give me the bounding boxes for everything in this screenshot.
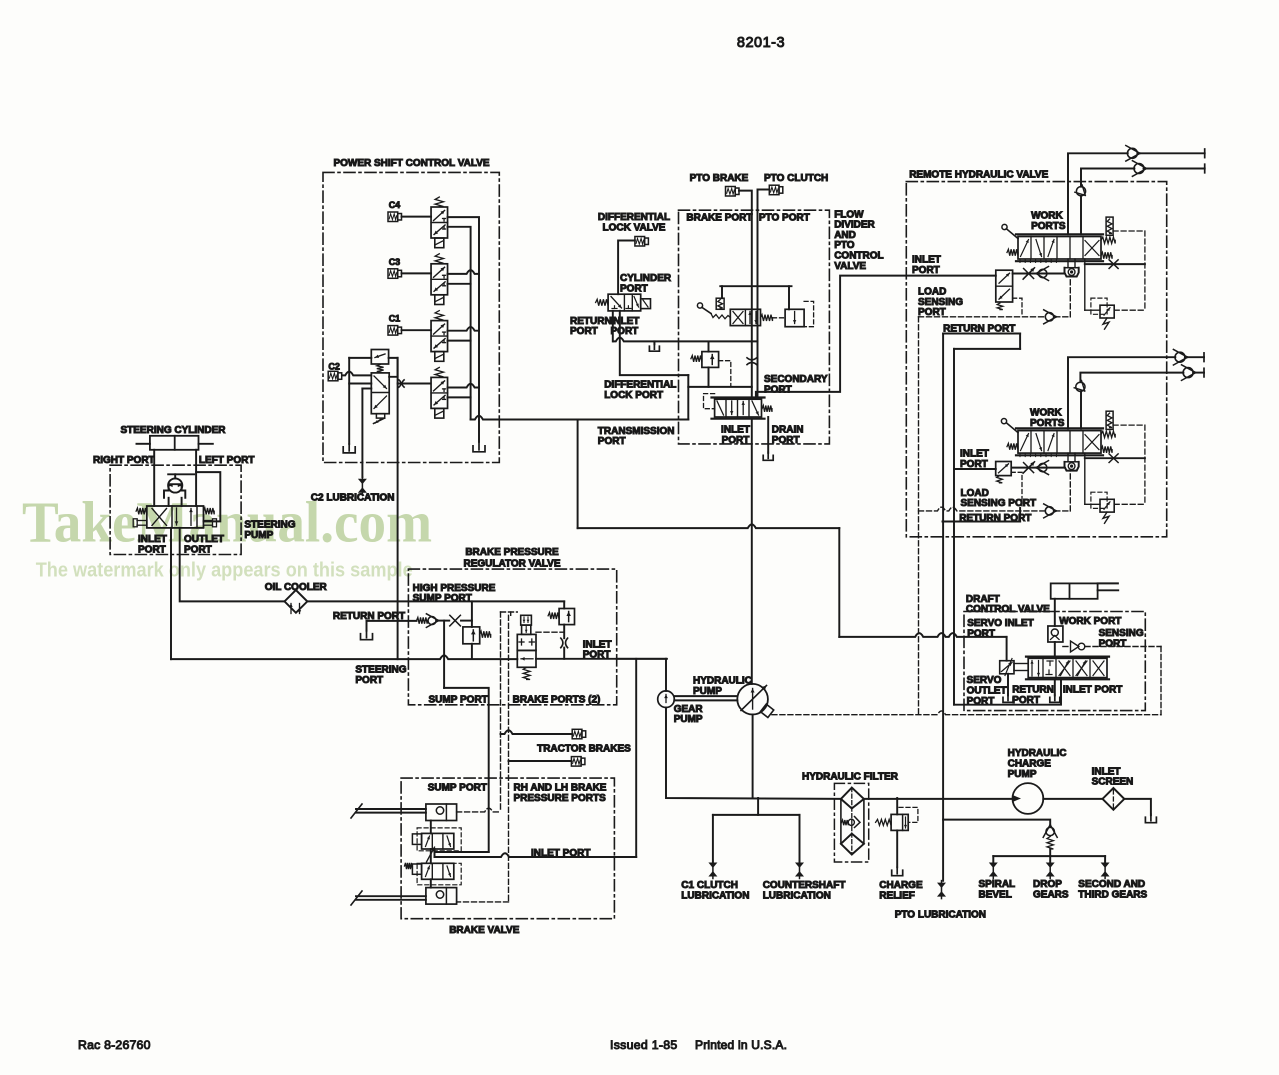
svg-text:VALVE: VALVE (834, 261, 866, 272)
svg-text:PORT: PORT (611, 326, 639, 337)
svg-text:PORT: PORT (772, 435, 800, 446)
pump drive shaft (674, 695, 737, 697)
svg-text:HIGH PRESSURE: HIGH PRESSURE (413, 583, 496, 594)
brake valve enclosure (401, 778, 614, 919)
remote valve pilot box (1106, 411, 1113, 429)
pto valve inlet line down to pump (751, 419, 753, 684)
svg-text:INLET: INLET (912, 254, 941, 265)
brake valve spool 2 (422, 863, 454, 879)
diff lock inlet from transmission (620, 311, 689, 375)
pto control valve (712, 396, 765, 398)
dashed brake line to cylinder 2 (457, 901, 509, 903)
svg-text:C3: C3 (389, 257, 401, 267)
svg-text:INLET: INLET (1092, 766, 1121, 777)
C2 pilot loop (349, 357, 371, 359)
svg-text:SERVO INLET: SERVO INLET (967, 618, 1033, 629)
inlet port line down (170, 528, 172, 659)
servo actuator (1000, 661, 1014, 674)
gear pump suction from sump line (665, 659, 667, 691)
svg-text:SECOND AND: SECOND AND (1078, 879, 1145, 890)
brake pressure regulator enclosure (408, 569, 616, 705)
svg-text:LUBRICATION: LUBRICATION (681, 890, 749, 901)
valve C3 (435, 254, 443, 263)
remote valve needle and check (1013, 273, 1065, 275)
svg-text:STEERING: STEERING (355, 665, 406, 676)
svg-text:PORT: PORT (598, 436, 626, 447)
svg-text:OUTLET: OUTLET (967, 686, 1007, 697)
wire valve4 upper to collector (448, 384, 479, 388)
sump into valves (435, 851, 489, 853)
wire C1 lower (448, 340, 471, 342)
remote valve relief pilot dashed box (1091, 492, 1107, 508)
svg-text:RIGHT PORT: RIGHT PORT (93, 455, 155, 466)
valve C2 tail (376, 414, 384, 418)
svg-text:PORT: PORT (1099, 638, 1127, 649)
svg-text:RELIEF: RELIEF (879, 890, 915, 901)
svg-text:INLET: INLET (721, 425, 750, 436)
pto lubrication line (937, 883, 946, 889)
svg-text:C1: C1 (389, 314, 401, 324)
svg-text:The watermark only appears on: The watermark only appears on this sampl… (36, 559, 413, 582)
svg-text:WORK PORT: WORK PORT (1059, 616, 1121, 627)
steering valve right loop (196, 472, 220, 521)
svg-text:Printed in U.S.A.: Printed in U.S.A. (695, 1038, 787, 1052)
svg-text:GEAR: GEAR (674, 704, 704, 715)
regulator spool stack (521, 615, 532, 625)
pump control dashed line (772, 711, 1161, 715)
wire C4 to valve (402, 216, 432, 218)
C2 port symbol (328, 371, 338, 381)
tank under right collector (473, 446, 485, 452)
charge line to gear lube (943, 820, 1050, 827)
wire valve4 lower (448, 396, 471, 398)
remote valve left spring (1007, 249, 1018, 255)
countershaft lubrication restrictor (795, 863, 804, 869)
C1 clutch lubrication restrictor (708, 863, 717, 869)
flow divider pilot valve (785, 309, 804, 326)
svg-text:LOAD: LOAD (961, 488, 989, 499)
flow divider pilot box small (716, 298, 724, 309)
svg-text:STEERING CYLINDER: STEERING CYLINDER (120, 425, 226, 436)
main low pressure line (666, 708, 841, 799)
svg-text:HYDRAULIC: HYDRAULIC (693, 675, 752, 686)
svg-text:CHARGE: CHARGE (1008, 759, 1052, 770)
brake port dashed lines (510, 612, 512, 615)
svg-text:OUTLET: OUTLET (184, 534, 224, 545)
C2 sump line down to steering port line (397, 358, 399, 659)
svg-text:PUMP: PUMP (674, 714, 703, 725)
svg-text:HYDRAULIC FILTER: HYDRAULIC FILTER (802, 771, 899, 782)
remote valve spool body (1016, 427, 1103, 429)
svg-text:BEVEL: BEVEL (979, 890, 1012, 901)
svg-text:SUMP PORT: SUMP PORT (428, 783, 487, 794)
remote valve compensator (1065, 462, 1079, 471)
power shift control valve enclosure (323, 172, 499, 462)
dashed brake line to cylinder 1 (457, 808, 501, 812)
remote valve 2 work lines (1068, 357, 1175, 429)
valve C2 pilot box (371, 350, 388, 365)
wire C1 upper to collector (448, 327, 479, 331)
inlet line of regulator (536, 658, 667, 660)
diff lock return line (612, 311, 614, 342)
flow divider enclosure (679, 210, 830, 444)
collector wire C4 lower (448, 227, 471, 420)
svg-text:PORT: PORT (918, 307, 946, 318)
remote valve inlet reducer (996, 270, 1013, 302)
second and third gears restrictor (1101, 863, 1110, 869)
remote valve 2 return line (943, 521, 1021, 523)
steering valve enclosure (110, 465, 241, 554)
relief valve right (563, 601, 565, 608)
remote valve inlet reducer (996, 462, 1012, 476)
svg-text:PORT: PORT (620, 283, 648, 294)
svg-text:WORK: WORK (1030, 408, 1062, 419)
svg-text:SUMP PORT: SUMP PORT (413, 593, 472, 604)
svg-text:C4: C4 (389, 200, 401, 210)
remote valve 1 return lines (943, 333, 1020, 335)
svg-text:HYDRAULIC: HYDRAULIC (1008, 748, 1067, 759)
wire C3 to valve (402, 272, 432, 274)
svg-text:INLET: INLET (583, 639, 612, 650)
work port line from cylinder (1054, 599, 1056, 626)
flow divider lever (697, 303, 702, 308)
servo outlet return loop (954, 679, 1061, 704)
brake cylinder 1 (426, 804, 457, 821)
svg-text:C2: C2 (328, 362, 340, 372)
charge relief valve (891, 814, 908, 830)
svg-text:SENSING PORT: SENSING PORT (961, 498, 1037, 509)
outlet port line to oil cooler (180, 528, 285, 602)
svg-text:PORT: PORT (355, 675, 383, 686)
flow divider top connection (720, 285, 791, 287)
remote valve right springs (1101, 431, 1115, 437)
svg-text:Issued 1-85: Issued 1-85 (610, 1038, 678, 1052)
svg-text:PORT: PORT (184, 544, 212, 555)
valve C2 spring (377, 364, 384, 373)
valve C4 (435, 197, 443, 207)
svg-text:BRAKE PORT: BRAKE PORT (686, 213, 752, 224)
diff lock common return line (613, 338, 757, 342)
servo inlet drop (1006, 637, 1008, 661)
flow divider spring right (761, 315, 773, 321)
sump inlet line (617, 658, 666, 660)
drop gears restrictor (1046, 863, 1055, 869)
svg-text:PORT: PORT (570, 326, 598, 337)
servo inlet line to draft valve (839, 633, 1006, 637)
brake valve spool 2 dashed enclosure (417, 863, 461, 885)
svg-text:RETURN: RETURN (570, 316, 612, 327)
differential lock valve (608, 294, 641, 311)
wire C2 wbox to valve (342, 372, 371, 376)
svg-text:8201-3: 8201-3 (737, 35, 785, 51)
remote hydraulic valve enclosure (906, 182, 1166, 537)
svg-text:SCREEN: SCREEN (1092, 777, 1134, 788)
tank on return line (653, 341, 655, 344)
return port line with check (367, 620, 417, 622)
remote valve left spring (1007, 443, 1018, 449)
svg-text:PORT: PORT (138, 544, 166, 555)
drain line (767, 417, 769, 453)
svg-text:SECONDARY: SECONDARY (764, 374, 828, 385)
brake valve spool 1 dashed enclosure (417, 828, 461, 851)
spiral bevel restrictor (989, 863, 998, 869)
remote return vertical lines (942, 334, 944, 881)
sensing dashed down to pump control (1160, 647, 1162, 715)
svg-text:BRAKE PORTS (2): BRAKE PORTS (2) (513, 695, 601, 706)
valve C2 body (371, 373, 389, 414)
tractor brakes (501, 730, 573, 734)
wire C2 valve to valve4 with restriction (398, 383, 431, 385)
restrictor on return line (450, 615, 461, 626)
svg-text:LOCK PORT: LOCK PORT (604, 390, 663, 401)
valve 4 unlabeled (435, 367, 443, 377)
remote valve load sensing dashed (919, 316, 1045, 318)
C2 tank branch (348, 358, 350, 444)
restriction on pto inlet line (747, 358, 757, 360)
svg-text:RETURN: RETURN (1012, 685, 1054, 696)
load sensing dashed vertical (918, 317, 920, 715)
remote valve relief pilot dashed box (1091, 298, 1107, 314)
draft valve enclosure (964, 612, 1145, 711)
wire to C2 valve mid (349, 383, 371, 385)
svg-text:PUMP: PUMP (244, 530, 273, 541)
sensing check valve (1071, 641, 1079, 652)
remote valve lever (1001, 419, 1006, 424)
svg-text:CONTROL VALVE: CONTROL VALVE (966, 604, 1050, 615)
svg-text:LUBRICATION: LUBRICATION (763, 890, 831, 901)
svg-text:PORT: PORT (764, 384, 792, 395)
draft tanks (1007, 674, 1009, 696)
svg-text:INLET: INLET (138, 534, 167, 545)
remote valve lever (1002, 224, 1007, 229)
brake cylinder 2 (426, 888, 457, 905)
steering valve side stubs (137, 520, 147, 522)
svg-text:INLET PORT: INLET PORT (1063, 685, 1122, 696)
remote valve right springs (1101, 237, 1115, 243)
steering valve springs (136, 508, 147, 514)
svg-text:REGULATOR VALVE: REGULATOR VALVE (463, 558, 560, 569)
svg-text:DRAIN: DRAIN (772, 425, 804, 436)
remote valve needle and check (1013, 467, 1065, 469)
remote valve restrictor line (1085, 457, 1145, 459)
svg-text:LOCK VALVE: LOCK VALVE (603, 223, 666, 234)
gear lube manifold (993, 855, 1105, 857)
remote valve 1 work lines (1068, 153, 1128, 234)
svg-text:PORT: PORT (722, 435, 750, 446)
cylinder to valve lines (153, 450, 155, 506)
valve C1 (435, 311, 443, 321)
svg-text:PORT: PORT (967, 628, 995, 639)
svg-text:TRACTOR BRAKES: TRACTOR BRAKES (537, 744, 631, 755)
svg-text:SUMP PORT: SUMP PORT (429, 695, 488, 706)
remote valve pilot dashed link (1113, 230, 1145, 232)
svg-text:PUMP: PUMP (1008, 769, 1037, 780)
svg-text:THIRD GEARS: THIRD GEARS (1078, 890, 1147, 901)
svg-text:INLET: INLET (611, 316, 640, 327)
svg-text:PTO PORT: PTO PORT (759, 213, 810, 224)
svg-text:RH AND LH BRAKE: RH AND LH BRAKE (514, 783, 607, 794)
wire C3 upper to collector (448, 270, 479, 274)
svg-text:PORT: PORT (912, 265, 940, 276)
sump port branch (444, 688, 489, 852)
remote valve spool body (1016, 233, 1103, 235)
draft main valve (1026, 655, 1109, 657)
relief line to inlet (688, 386, 752, 388)
oil cooler line to brake pressure regulator (307, 600, 564, 602)
svg-text:LOAD: LOAD (918, 286, 946, 297)
C2 lubrication restrictor (358, 479, 367, 485)
svg-text:WORK: WORK (1031, 210, 1063, 221)
relief valve left (471, 601, 473, 627)
dashed pilot from stack to inlet branch (536, 631, 564, 633)
brake valve spool 1 (422, 833, 454, 849)
svg-text:SERVO: SERVO (967, 675, 1002, 686)
svg-text:DRAFT: DRAFT (966, 594, 1000, 605)
svg-text:PRESSURE PORTS: PRESSURE PORTS (514, 793, 607, 804)
svg-text:C1 CLUTCH: C1 CLUTCH (681, 880, 738, 891)
draft cylinder (1051, 583, 1098, 598)
flow divider relief valve (708, 342, 710, 351)
svg-text:STEERING: STEERING (244, 520, 295, 531)
svg-text:DIFFERENTIAL: DIFFERENTIAL (604, 379, 676, 390)
svg-text:C2 LUBRICATION: C2 LUBRICATION (311, 493, 395, 504)
svg-text:PTO LUBRICATION: PTO LUBRICATION (895, 910, 986, 921)
svg-text:BRAKE PRESSURE: BRAKE PRESSURE (465, 547, 559, 558)
svg-text:REMOTE HYDRAULIC VALVE: REMOTE HYDRAULIC VALVE (909, 169, 1048, 180)
restrictor under right relief (561, 638, 563, 648)
svg-text:DIFFERENTIAL: DIFFERENTIAL (598, 212, 670, 223)
svg-text:SENSING: SENSING (1099, 628, 1144, 639)
svg-text:GEARS: GEARS (1033, 890, 1069, 901)
steering port line (171, 655, 517, 659)
line filter to charge pump (864, 798, 1013, 800)
C2 lubrication branch (362, 388, 371, 390)
remote valve 2 inlet line (954, 468, 996, 470)
draft check valve square (1048, 626, 1063, 642)
svg-text:LEFT PORT: LEFT PORT (199, 455, 255, 466)
steering control valve (147, 506, 204, 528)
svg-text:PORTS: PORTS (1030, 418, 1065, 429)
gear lube check valve (1046, 827, 1054, 835)
svg-text:PORTS: PORTS (1031, 221, 1066, 232)
remote valve restrictor line (1085, 263, 1145, 265)
svg-text:DROP: DROP (1033, 879, 1062, 890)
filter bypass check (841, 820, 848, 825)
svg-text:BRAKE VALVE: BRAKE VALVE (449, 925, 520, 936)
brake valve interconnections (430, 821, 432, 834)
branch to servo inlet line (577, 420, 579, 529)
svg-text:CYLINDER: CYLINDER (620, 273, 672, 284)
remote valve pilot dashed link (1113, 424, 1145, 426)
lubrication branch (757, 798, 759, 815)
svg-text:CHARGE: CHARGE (879, 880, 923, 891)
svg-text:SPIRAL: SPIRAL (979, 879, 1016, 890)
wire C3 lower (448, 283, 471, 285)
svg-text:PTO CLUTCH: PTO CLUTCH (764, 173, 828, 184)
collector wire C4 upper (448, 217, 479, 442)
remote valve compensator (1065, 268, 1079, 277)
svg-text:COUNTERSHAFT: COUNTERSHAFT (763, 880, 846, 891)
svg-text:POWER SHIFT CONTROL VALVE: POWER SHIFT CONTROL VALVE (333, 158, 489, 169)
svg-text:PTO BRAKE: PTO BRAKE (690, 173, 749, 184)
svg-text:SENSING: SENSING (918, 297, 963, 308)
wire C1 to valve (402, 329, 432, 331)
steering pump (168, 478, 182, 492)
remote valve load sensing dashed (919, 507, 1045, 511)
svg-text:Rac 8-26760: Rac 8-26760 (78, 1038, 151, 1052)
brake valve inlet line (434, 849, 436, 857)
flow divider main valve (730, 309, 760, 325)
svg-text:TRANSMISSION: TRANSMISSION (598, 426, 675, 437)
remote valve pilot box (1106, 217, 1113, 235)
transmission port line (471, 416, 689, 420)
svg-text:INLET: INLET (960, 449, 989, 460)
